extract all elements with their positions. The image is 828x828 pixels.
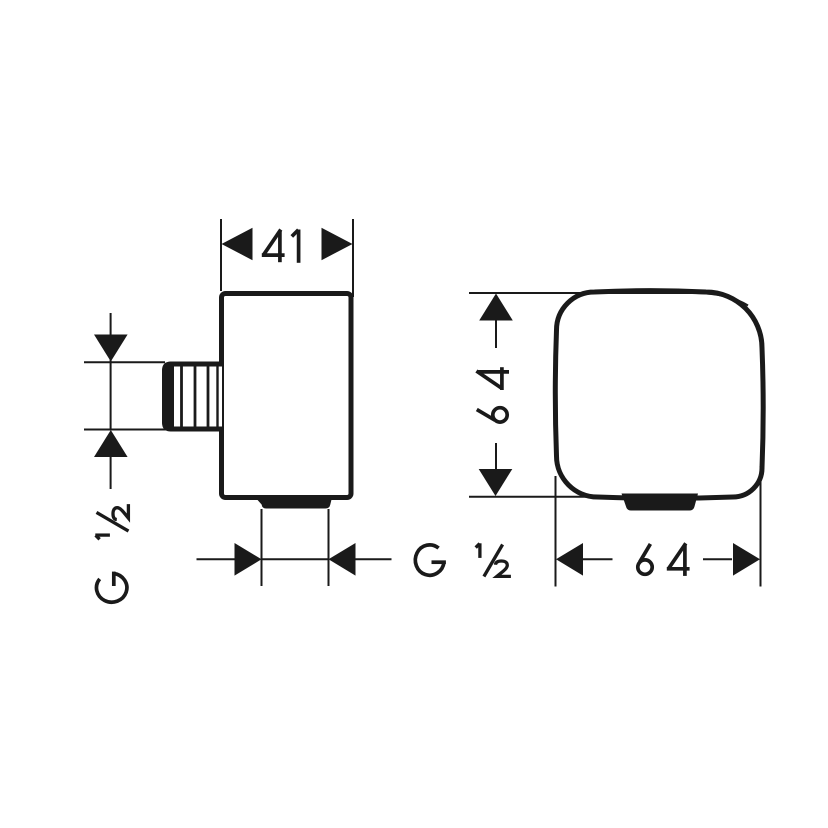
dimension 64 vertical: bottom arrow (down): [479, 469, 513, 496]
main body side view (left view rectangle): [222, 294, 352, 498]
dimension 64 vertical: value label (rotated): [476, 367, 509, 422]
front view rounded-square body: [555, 291, 763, 499]
inlet thread dimension: vertical line upper segment: [110, 313, 112, 362]
outlet dimension: left arrow (points right): [235, 543, 262, 576]
threaded inlet connector (side view, left): [162, 362, 222, 432]
dimension 64 horizontal: right line segment: [703, 558, 732, 560]
inlet thread dimension: upper arrow (down): [94, 335, 128, 362]
inlet thread label G 1/2 (rotated): [95, 504, 128, 602]
dimension 64 horizontal: left arrow (points left): [556, 543, 583, 576]
outlet dimension: left extension line: [261, 509, 263, 586]
dimension 64 vertical: lower line segment: [495, 443, 497, 470]
dimension 64 vertical: top arrow (up): [479, 294, 513, 321]
dimension 41: right arrow: [322, 228, 353, 260]
dimension 64 horizontal: value label: [638, 543, 690, 576]
outlet dimension: right lead line: [353, 558, 392, 560]
bottom outlet spigot (side view, filled trapezoid): [254, 496, 333, 509]
dimension 41: value label: [262, 230, 299, 263]
dimension 41: left arrow: [222, 228, 253, 260]
dimension 64 horizontal: right extension line: [760, 466, 762, 587]
outlet dimension: right arrow (points left): [329, 543, 356, 576]
thread lines on inlet connector: [182, 367, 218, 427]
dimension 64 vertical: bottom tick line: [469, 496, 588, 498]
dimension 64 vertical: top tick line: [469, 293, 748, 306]
dimension 64 vertical: upper line segment: [495, 320, 497, 348]
dimension 41: extension lines: [221, 219, 353, 297]
outlet thread label G 1/2: [415, 543, 511, 576]
inlet thread dimension: lower arrow (up): [94, 430, 128, 457]
front view outlet spigot (filled trapezoid): [622, 494, 699, 511]
outlet dimension: middle line: [262, 558, 329, 560]
dimension 64 horizontal: left line segment: [583, 558, 613, 560]
dimension 64 horizontal: left extension line: [555, 476, 557, 587]
outlet dimension: right extension line: [328, 509, 330, 586]
inlet thread dimension: vertical line lower segment: [110, 456, 112, 489]
inlet thread dimension: upper tick line: [84, 361, 165, 363]
outlet dimension: left lead line: [197, 558, 238, 560]
inlet thread dimension: lower tick line: [84, 429, 169, 431]
dimension 64 horizontal: right arrow (points right): [733, 543, 760, 576]
inlet thread dimension: vertical line middle segment: [110, 362, 112, 430]
